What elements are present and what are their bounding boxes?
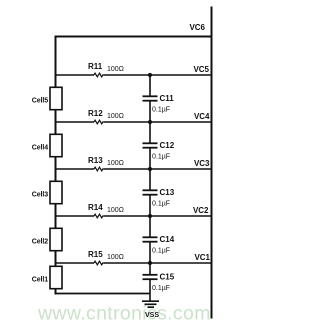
battery cell Cell3	[50, 181, 62, 203]
capacitor C13	[143, 169, 158, 216]
battery cell Cell1	[50, 266, 62, 288]
wire: right vertical bus	[211, 7, 213, 319]
wire: VC2 horizontal net (left segment)	[56, 215, 95, 217]
junction dot on VC1 net	[148, 261, 152, 265]
junction dot on VC2 net	[148, 214, 152, 218]
svg-text:VSS: VSS	[145, 312, 159, 319]
svg-text:0.1µF: 0.1µF	[152, 154, 170, 161]
svg-text:C14: C14	[160, 235, 175, 244]
svg-text:Cell3: Cell3	[32, 192, 48, 199]
wire: VC1 horizontal net (right segment)	[103, 262, 211, 264]
junction dot on VC5 net	[148, 73, 152, 77]
svg-text:0.1µF: 0.1µF	[152, 107, 170, 114]
junction dot on VC3 net	[148, 167, 152, 171]
svg-text:R12: R12	[88, 109, 103, 118]
wire: VC4 horizontal net (right segment)	[103, 121, 211, 123]
svg-text:Cell4: Cell4	[32, 145, 48, 152]
svg-text:VC6: VC6	[189, 23, 205, 32]
svg-text:Cell1: Cell1	[32, 277, 48, 284]
wire: VC1 horizontal net (left segment)	[56, 262, 95, 264]
resistor R15	[94, 261, 103, 265]
wire: VC4 horizontal net (left segment)	[56, 121, 95, 123]
svg-text:Cell5: Cell5	[32, 98, 48, 105]
svg-text:100Ω: 100Ω	[107, 160, 124, 167]
wire: VC2 horizontal net (right segment)	[103, 215, 211, 217]
svg-text:VC4: VC4	[194, 112, 210, 121]
capacitor C14	[143, 216, 158, 263]
resistor R11	[94, 73, 103, 77]
wire: left vertical bus (cell stack)	[55, 36, 57, 295]
resistor R14	[94, 214, 103, 218]
svg-text:0.1µF: 0.1µF	[152, 285, 170, 292]
battery cell Cell5	[50, 87, 62, 109]
svg-text:C11: C11	[160, 94, 175, 103]
svg-text:VC5: VC5	[193, 65, 209, 74]
wire: VC3 horizontal net (left segment)	[56, 168, 95, 170]
ground	[142, 301, 159, 307]
capacitor C12	[143, 122, 158, 169]
svg-text:C12: C12	[160, 141, 175, 150]
wire: top bus (VC6 net)	[55, 36, 213, 38]
capacitor C15	[143, 263, 158, 301]
svg-text:0.1µF: 0.1µF	[152, 201, 170, 208]
svg-text:VC2: VC2	[193, 206, 209, 215]
svg-text:R11: R11	[88, 62, 103, 71]
svg-text:www.cntronics.com: www.cntronics.com	[37, 303, 211, 325]
svg-text:VC1: VC1	[194, 253, 210, 262]
svg-text:100Ω: 100Ω	[107, 207, 124, 214]
svg-text:R15: R15	[88, 250, 103, 259]
svg-text:100Ω: 100Ω	[107, 66, 124, 73]
svg-text:Cell2: Cell2	[32, 239, 48, 246]
junction dot on VC4 net	[148, 120, 152, 124]
battery cell Cell2	[50, 228, 62, 250]
svg-text:C13: C13	[160, 188, 175, 197]
svg-text:R13: R13	[88, 156, 103, 165]
svg-text:0.1µF: 0.1µF	[152, 248, 170, 255]
svg-text:C15: C15	[160, 273, 175, 282]
svg-text:R14: R14	[88, 203, 103, 212]
wire: VC5 horizontal net (right segment)	[103, 74, 211, 76]
svg-text:VC3: VC3	[194, 159, 210, 168]
battery cell Cell4	[50, 134, 62, 156]
resistor R13	[94, 167, 103, 171]
wire: bottom wire to ground	[56, 293, 151, 295]
capacitor C11	[143, 75, 158, 122]
wire: VC3 horizontal net (right segment)	[103, 168, 211, 170]
svg-text:100Ω: 100Ω	[107, 113, 124, 120]
svg-text:100Ω: 100Ω	[107, 254, 124, 261]
resistor R12	[94, 120, 103, 124]
wire: VC5 horizontal net (left segment)	[56, 74, 95, 76]
